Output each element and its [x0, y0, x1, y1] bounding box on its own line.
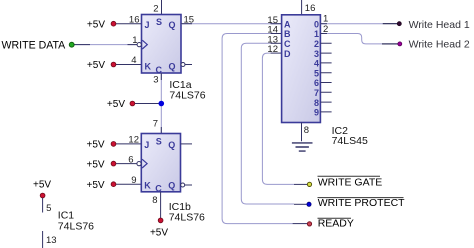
- svg-text:+5V: +5V: [33, 179, 51, 190]
- label IC1: [58, 210, 94, 233]
- svg-text:7: 7: [153, 119, 158, 130]
- wire: IC1a Q (pin 15) to IC2 A (pin 15): [181, 23, 282, 25]
- wire: +5V to IC1a pin 16 (J): [116, 23, 142, 25]
- svg-text:4: 4: [131, 55, 136, 66]
- pin number 5 (IC1 VCC): [46, 203, 51, 214]
- svg-text:+5V: +5V: [87, 140, 105, 151]
- svg-text:6: 6: [314, 78, 319, 88]
- svg-text:6: 6: [128, 154, 133, 165]
- svg-text:J: J: [144, 140, 149, 150]
- IC1b clock bubble: [137, 162, 141, 166]
- svg-text:C: C: [155, 184, 162, 194]
- wire: IC1a pin 2 (PRE) stub to top edge: [161, 0, 163, 15]
- svg-text:B: B: [284, 29, 291, 39]
- IC2 output stubs 2-9: [320, 43, 331, 112]
- terminal WRITE GATE: [307, 176, 382, 188]
- label IC2: [332, 125, 368, 147]
- IC1b Q-bar bubble and stub: [181, 183, 192, 187]
- svg-text:Write Head 1: Write Head 1: [409, 19, 470, 31]
- svg-text:74LS76: 74LS76: [58, 220, 94, 232]
- terminal Write Head 2: [398, 38, 470, 50]
- svg-text:J: J: [145, 20, 150, 30]
- junction node (blue dot): [159, 101, 165, 107]
- svg-text:3: 3: [314, 49, 319, 59]
- svg-text:12: 12: [267, 44, 278, 55]
- ground: [292, 143, 313, 151]
- svg-text:2: 2: [153, 4, 158, 15]
- pin number 8 (IC1b CLR): [152, 195, 157, 206]
- svg-text:13: 13: [46, 235, 57, 246]
- IC1a clock triangle: [142, 40, 147, 49]
- power +5V (IC1b K): [87, 180, 116, 191]
- wire: net READY to IC2 B (pin 14): [222, 34, 307, 224]
- wire: IC1a pin 3 (CLR) to IC1b pin 7 (PRE) with +5V tap: [160, 73, 162, 134]
- IC1b Q stub: [181, 143, 193, 145]
- power +5V (IC1a J): [87, 19, 116, 30]
- pin number 12 (IC2 D): [267, 44, 278, 55]
- op-amp: none; flip-flop IC1a 74LS76 body: [142, 15, 182, 76]
- svg-text:2: 2: [314, 39, 319, 49]
- svg-text:7: 7: [314, 88, 319, 98]
- svg-text:0: 0: [314, 19, 319, 29]
- terminal WRITE PROTECT: [307, 197, 405, 209]
- pin number 13 (IC2 C): [267, 34, 278, 45]
- svg-text:+5V: +5V: [107, 99, 125, 110]
- IC1b clock triangle: [142, 159, 147, 168]
- svg-text:74LS76: 74LS76: [169, 211, 205, 223]
- svg-text:9: 9: [314, 108, 319, 118]
- svg-text:3: 3: [153, 75, 158, 86]
- pin number 13 (IC1 GND): [46, 235, 57, 246]
- svg-text:Q: Q: [169, 62, 176, 72]
- svg-text:A: A: [284, 19, 291, 29]
- svg-text:K: K: [145, 62, 152, 72]
- svg-text:8: 8: [314, 98, 319, 108]
- svg-text:Q: Q: [169, 20, 176, 30]
- label IC1a: [169, 79, 205, 101]
- svg-text:S: S: [156, 137, 162, 147]
- flip-flop IC1b 74LS76 body: [141, 134, 180, 194]
- pin number 15 (IC2 A): [267, 15, 278, 26]
- terminal: WRITE DATA input: [2, 39, 75, 51]
- pin number 7 (IC1b PRE): [153, 119, 158, 130]
- pin number 1 (IC1a CLK): [132, 35, 137, 46]
- wire: +5V tap to junction: [135, 103, 162, 105]
- svg-text:Q: Q: [168, 140, 175, 150]
- pin number 14 (IC2 B): [267, 25, 278, 36]
- pin number 2 (IC2 out 1): [323, 24, 328, 35]
- wire: +5V to IC1a pin 4 (K): [116, 64, 142, 66]
- power +5V (CLR1/PRE2 net): [107, 99, 135, 110]
- pin number 9 (IC1b K): [131, 175, 136, 186]
- pin number 6 (IC1b CLK): [128, 154, 133, 165]
- svg-text:2: 2: [323, 24, 328, 35]
- svg-text:WRITE PROTECT: WRITE PROTECT: [318, 197, 405, 209]
- IC1a clock bubble: [137, 43, 141, 47]
- power +5V (IC1b CLR): [150, 218, 168, 239]
- pin number 3 (IC1a CLR): [153, 75, 158, 86]
- svg-text:+5V: +5V: [150, 228, 168, 239]
- svg-text:4: 4: [314, 59, 319, 69]
- IC1a Q-bar bubble and stub: [181, 63, 192, 67]
- wire: net WRITE DATA to IC1a clock: [74, 44, 137, 46]
- pin number 8 (IC2 GND): [304, 125, 309, 136]
- svg-text:8: 8: [152, 195, 157, 206]
- power +5V (IC1b CLK): [87, 159, 116, 170]
- pin number 15 (IC1a Q): [184, 14, 195, 25]
- svg-text:1: 1: [314, 29, 319, 39]
- svg-text:1: 1: [323, 14, 328, 25]
- svg-text:D: D: [284, 49, 291, 59]
- wire: +5V to IC1b pin 12 (J): [116, 143, 141, 145]
- svg-text:+5V: +5V: [87, 19, 105, 30]
- wire: IC1b pin 8 (CLR) down to +5V: [160, 192, 162, 218]
- wire: IC2 pin 16 (VCC) stub to top edge: [301, 0, 303, 15]
- decoder IC2 74LS45 body: [282, 15, 321, 123]
- svg-text:16: 16: [305, 3, 316, 14]
- svg-text:+5V: +5V: [87, 180, 105, 191]
- wire: IC2 pin 8 to ground: [301, 123, 303, 142]
- wire: IC2 output 0 (pin 1) to Write Head 1: [320, 23, 397, 25]
- svg-text:Write Head 2: Write Head 2: [409, 38, 470, 50]
- pin number 2 (IC1a PRE): [153, 4, 158, 15]
- svg-text:74LS45: 74LS45: [332, 135, 368, 147]
- power +5V (IC1b J): [87, 140, 116, 151]
- label IC1b: [169, 201, 205, 223]
- svg-text:5: 5: [46, 203, 51, 214]
- terminal Write Head 1: [397, 19, 470, 31]
- wire: IC1 pin 13 stub (GND, runs off bottom): [42, 231, 44, 248]
- power +5V (IC1a K): [87, 60, 116, 71]
- svg-text:16: 16: [129, 15, 140, 26]
- svg-text:READY: READY: [318, 218, 354, 230]
- pin number 1 (IC2 out 0): [323, 14, 328, 25]
- svg-text:+5V: +5V: [87, 60, 105, 71]
- wire: IC2 output 1 (pin 2) to Write Head 2: [320, 34, 398, 44]
- wire: +5V to IC1b pin 9 (K): [116, 183, 141, 185]
- svg-text:WRITE GATE: WRITE GATE: [318, 177, 383, 189]
- pin number 4 (IC1a K): [131, 55, 136, 66]
- wire: IC1 pin 5 stub: [42, 198, 44, 213]
- pin number 16 (IC2 VCC): [305, 3, 316, 14]
- svg-text:74LS76: 74LS76: [169, 89, 205, 101]
- pin number 12 (IC1b J): [128, 135, 139, 146]
- svg-text:12: 12: [128, 135, 139, 146]
- svg-text:S: S: [156, 17, 162, 27]
- svg-text:8: 8: [304, 125, 309, 136]
- svg-text:+5V: +5V: [87, 159, 105, 170]
- svg-text:C: C: [284, 39, 291, 49]
- wire: +5V to IC1b pin 6 (CLK): [116, 163, 137, 165]
- svg-text:1: 1: [132, 35, 137, 46]
- svg-text:WRITE DATA: WRITE DATA: [2, 39, 67, 51]
- terminal READY: [307, 218, 353, 230]
- wire: net WRITE PROTECT to IC2 C (pin 13): [241, 43, 306, 204]
- pin number 16 (IC1a J): [129, 15, 140, 26]
- svg-text:Q: Q: [168, 180, 175, 190]
- svg-text:9: 9: [131, 175, 136, 186]
- svg-text:K: K: [144, 180, 151, 190]
- svg-text:5: 5: [314, 68, 319, 78]
- wire: net WRITE GATE to IC2 D (pin 12): [262, 53, 307, 184]
- power +5V (IC1 pin 5 VCC, bottom-left): [33, 179, 51, 198]
